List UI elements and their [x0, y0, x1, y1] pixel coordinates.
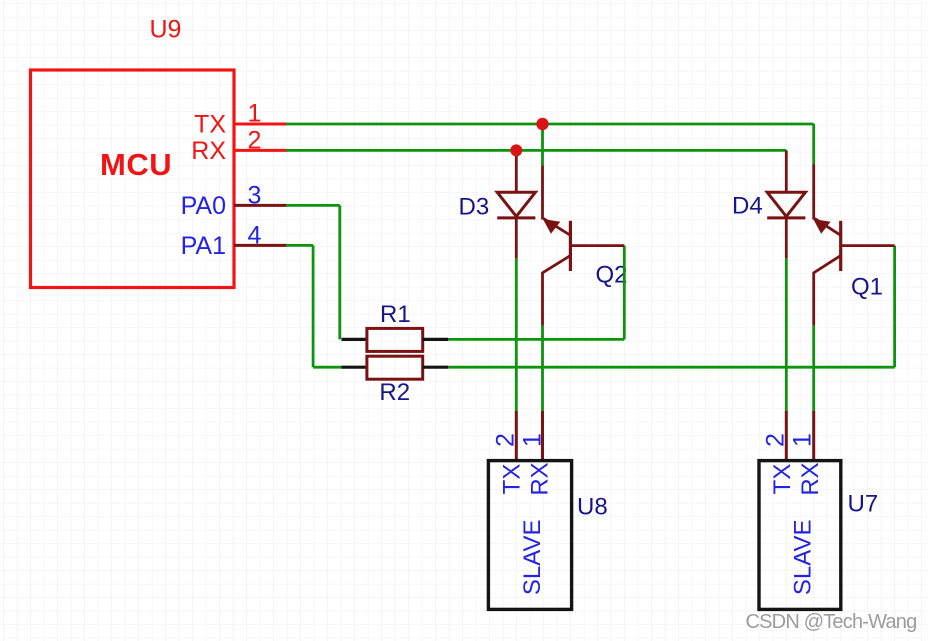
diode D4 cathode lead [785, 218, 788, 258]
diode D3 anode lead [515, 150, 518, 192]
pin 4 PA1 stub [234, 244, 287, 247]
transistor Q1 base bar [839, 221, 842, 271]
wire PA1 vertical to R2 [312, 245, 315, 367]
transistor Q1 collector lead [812, 164, 815, 219]
svg-text:RX: RX [527, 462, 554, 495]
U8 pin 2 stub [515, 411, 518, 461]
svg-text:RX: RX [191, 137, 226, 165]
wire PA1 horizontal [286, 244, 313, 247]
transistor Q2 collector lead [541, 165, 544, 219]
slave U7 body [759, 461, 841, 610]
svg-text:U9: U9 [150, 16, 182, 44]
svg-text:2: 2 [248, 127, 262, 155]
resistor R2 body [367, 356, 423, 379]
transistor Q2 emitter lead [541, 272, 544, 326]
diode D4 triangle [767, 192, 805, 216]
wire Q2 emitter to U8 [541, 326, 544, 411]
wire TX branch down to Q2 [541, 124, 544, 165]
diode D3 cathode bar [497, 216, 535, 219]
U7 pin 1 stub [812, 411, 815, 461]
svg-text:TX: TX [769, 464, 796, 495]
wire PA0 horizontal [286, 204, 340, 207]
svg-text:D4: D4 [732, 193, 763, 220]
svg-text:PA0: PA0 [181, 192, 226, 220]
wire Q2 base riser [623, 246, 626, 340]
svg-text:RX: RX [797, 462, 824, 495]
pin 3 PA0 stub [234, 204, 287, 207]
transistor Q1 emitter lead [812, 272, 815, 326]
transistor Q1 collector diagonal with arrow [815, 219, 841, 236]
svg-text:R1: R1 [380, 301, 411, 328]
diode D4 anode lead [785, 150, 788, 192]
svg-text:4: 4 [248, 221, 262, 249]
svg-text:2: 2 [492, 433, 520, 447]
svg-text:1: 1 [248, 99, 262, 127]
wire PA0 vertical to R1 [338, 205, 341, 339]
IC U9 MCU body [31, 70, 235, 288]
svg-text:U8: U8 [577, 494, 608, 521]
wire R2 to Q1 base horizontal [448, 366, 894, 369]
resistor R2 right lead [423, 366, 449, 369]
diode D3 triangle [497, 192, 535, 216]
U7 pin 2 stub [785, 411, 788, 461]
pin 1 TX stub [234, 123, 287, 126]
slave U8 body [488, 461, 571, 610]
svg-text:2: 2 [762, 433, 790, 447]
wire R1 to Q2 base horizontal [448, 338, 624, 341]
svg-text:TX: TX [499, 464, 526, 495]
wire D3 cathode to U8 [515, 258, 518, 411]
svg-text:PA1: PA1 [181, 232, 226, 260]
svg-text:U7: U7 [848, 491, 879, 518]
wire TX horizontal [286, 123, 814, 126]
transistor Q1 emitter diagonal [814, 256, 841, 273]
svg-text:3: 3 [248, 181, 262, 209]
svg-text:MCU: MCU [100, 147, 172, 182]
wire TX down to Q1 [812, 124, 815, 164]
svg-text:1: 1 [519, 433, 547, 447]
resistor R1 body [367, 328, 423, 351]
svg-text:R2: R2 [379, 379, 410, 406]
resistor R2 left lead [342, 366, 367, 369]
transistor Q2 emitter diagonal [543, 256, 571, 273]
svg-text:Q1: Q1 [851, 274, 883, 301]
wire Q1 base riser [893, 246, 896, 368]
diode D4 cathode bar [767, 216, 805, 219]
svg-text:D3: D3 [459, 194, 490, 221]
pin 2 RX stub [234, 149, 287, 152]
svg-text:Q2: Q2 [596, 262, 628, 289]
transistor Q2 base bar [569, 221, 572, 271]
wire D4 cathode to U7 [785, 258, 788, 411]
svg-text:1: 1 [789, 433, 817, 447]
wire Q1 emitter to U7 [812, 326, 815, 411]
transistor Q2 collector diagonal with arrow [544, 219, 571, 236]
U8 pin 1 stub [541, 411, 544, 461]
junction dot RX node [510, 144, 522, 156]
diode D3 cathode lead [515, 218, 518, 258]
svg-text:TX: TX [194, 111, 226, 139]
resistor R1 left lead [342, 338, 367, 341]
svg-text:CSDN @Tech-Wang: CSDN @Tech-Wang [746, 611, 917, 633]
svg-text:SLAVE: SLAVE [789, 519, 816, 595]
transistor Q1 base lead [841, 244, 895, 247]
wire RX horizontal [286, 149, 786, 152]
svg-text:SLAVE: SLAVE [519, 519, 546, 595]
junction dot TX node [536, 118, 548, 130]
resistor R1 right lead [423, 338, 449, 341]
transistor Q2 base lead [570, 244, 624, 247]
wire PA1 to R2 lead [313, 366, 341, 369]
